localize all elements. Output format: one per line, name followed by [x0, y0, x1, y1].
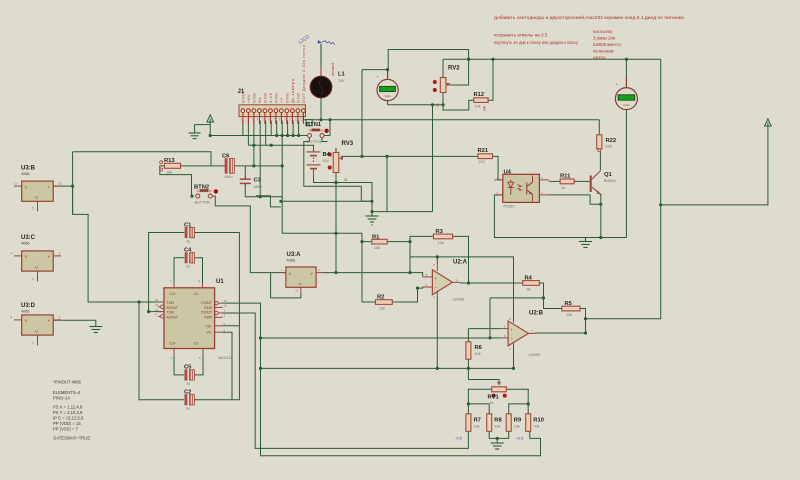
svg-text:R21: R21 — [478, 148, 489, 154]
wire R2 to minus — [392, 287, 422, 303]
svg-text:220: 220 — [479, 160, 485, 164]
power arrow (far right) — [765, 119, 772, 128]
svg-text:R3: R3 — [436, 229, 444, 235]
svg-text:исправить атмелы на 0.5: исправить атмелы на 0.5 — [494, 33, 548, 38]
svg-text:U3:B: U3:B — [21, 165, 36, 171]
svg-text:R9: R9 — [514, 417, 522, 423]
wire R11 to Q1 base — [574, 180, 590, 182]
wire power arrow right branch — [661, 128, 768, 205]
wire R1 left — [362, 241, 372, 243]
svg-text:10k: 10k — [514, 424, 520, 428]
svg-text:*PINOUT 4066: *PINOUT 4066 — [53, 380, 82, 385]
svg-text:LM359: LM359 — [529, 353, 541, 357]
svg-text:R11: R11 — [560, 174, 571, 180]
svg-text:12: 12 — [31, 206, 35, 210]
wire J1 pin8 long down — [282, 121, 362, 234]
svg-text:100u: 100u — [224, 175, 232, 179]
svg-text:PP (VDD) = 14: PP (VDD) = 14 — [53, 421, 81, 426]
svg-text:11: 11 — [14, 182, 17, 186]
wire long vertical x362 upper — [361, 70, 363, 157]
wire node to R5 — [544, 298, 562, 309]
svg-text:R4: R4 — [525, 276, 533, 282]
wire U2:B minus stub — [490, 337, 501, 339]
svg-text:PP (VSS) = 7: PP (VSS) = 7 — [53, 427, 79, 432]
wire RV1 right loop — [506, 389, 528, 404]
op-amp U2:A — [423, 263, 460, 299]
lamp L1 — [310, 44, 332, 98]
svg-text:U3:A: U3:A — [287, 252, 302, 258]
svg-text:R13: R13 — [164, 158, 175, 164]
voltmeter VM1 — [377, 72, 399, 101]
svg-text:U: U — [35, 266, 38, 270]
wire R6 top — [467, 329, 469, 342]
potentiometer RV1 — [492, 382, 507, 398]
power arrow (near J1) — [207, 115, 214, 124]
wire R4 right node — [539, 283, 543, 298]
IC U1 MAX232 — [155, 279, 227, 360]
wire J1 pin3 down — [253, 121, 255, 166]
wire J1 pin10 down — [292, 121, 294, 136]
svg-text:10: 10 — [59, 182, 63, 186]
wire RV2 top leg — [442, 59, 444, 77]
svg-text:B4: B4 — [323, 152, 331, 158]
svg-text:R7: R7 — [474, 417, 481, 423]
wire BTN1 right up — [324, 120, 330, 136]
svg-text:L1: L1 — [338, 72, 346, 78]
svg-text:U4: U4 — [504, 169, 512, 175]
ground (right, Q1 emitter rail) — [579, 238, 592, 248]
wire voltmeter1 bottom row y105 — [388, 101, 444, 105]
svg-text:10V: 10V — [323, 159, 330, 163]
ground (bottom, bridge) — [491, 443, 504, 449]
wire x432 vertical — [432, 105, 434, 212]
svg-text:GND: GND — [262, 92, 267, 103]
wire J1 pin7 down — [276, 121, 278, 136]
svg-text:1u: 1u — [186, 407, 190, 411]
svg-text:R8: R8 — [494, 417, 502, 423]
svg-text:PINS=14: PINS=14 — [53, 396, 71, 401]
wire C3 top — [244, 166, 246, 179]
svg-text:C2: C2 — [184, 390, 191, 396]
svg-text:U2:B: U2:B — [529, 311, 544, 317]
svg-text:BTN2: BTN2 — [194, 185, 209, 191]
svg-text:+: + — [434, 276, 437, 281]
wire R1 right node — [387, 242, 410, 273]
svg-text:4066: 4066 — [287, 259, 295, 263]
wire RV3 wiper row to R21 — [341, 155, 478, 157]
svg-text:C2-: C2- — [194, 342, 199, 346]
wire RV2 bottom jog to R12 left — [443, 93, 474, 111]
wire left vertical x72.6 — [72, 152, 74, 215]
annotation red notes top — [494, 14, 685, 45]
capacitor C2 — [185, 395, 195, 405]
net label L1(1) blue — [298, 34, 335, 46]
svg-text:9k: 9k — [527, 287, 531, 291]
wire R3 right feedback — [453, 236, 469, 283]
svg-text:Dx: Dx — [257, 97, 262, 103]
wire R6 to RV1 wiper — [468, 368, 499, 385]
svg-text:U2:A: U2:A — [453, 260, 468, 266]
svg-text:+0.5: +0.5 — [516, 436, 525, 441]
svg-text:C3: C3 — [254, 178, 262, 184]
svg-text:RV1: RV1 — [488, 395, 500, 401]
optocoupler U4 — [494, 174, 548, 202]
svg-text:10: 10 — [155, 308, 159, 312]
resistor R21 — [478, 154, 493, 159]
svg-text:10k: 10k — [166, 171, 172, 175]
svg-text:GND: GND — [273, 92, 278, 103]
svg-text:BUTTON: BUTTON — [195, 201, 211, 205]
wire R12 right to rail — [488, 59, 493, 100]
wire J1 pin1 down — [242, 121, 244, 136]
wire BTN1 row y135.5 — [210, 135, 307, 137]
button BTN2 — [196, 189, 218, 198]
wire J1 pin9 down — [287, 121, 289, 136]
svg-text:RV2: RV2 — [448, 66, 460, 72]
svg-text:1k: 1k — [561, 186, 565, 190]
wire R13 to C6 row — [181, 165, 283, 167]
svg-text:U1: U1 — [216, 279, 224, 285]
potentiometer RV2 — [433, 78, 450, 108]
capacitor C1 — [185, 227, 195, 237]
wire R21 right to U4 pin1 — [493, 156, 503, 180]
svg-text:10k: 10k — [475, 105, 481, 109]
svg-text:автомоб: автомоб — [331, 63, 335, 76]
svg-text:R12: R12 — [474, 92, 485, 98]
svg-text:ELEMENTS=4: ELEMENTS=4 — [53, 390, 81, 395]
svg-text:OUT Диодов 0.42v голос: OUT Диодов 0.42v голос — [301, 44, 306, 103]
capacitor C6 — [223, 159, 237, 174]
wire R5 right — [580, 309, 586, 334]
svg-text:220: 220 — [606, 145, 612, 149]
wire rail y119.7 — [304, 117, 600, 120]
wire top rail B y59 — [443, 58, 661, 60]
svg-text:R1IN: R1IN — [204, 306, 212, 310]
svg-text:10k: 10k — [475, 352, 481, 356]
svg-text:4066: 4066 — [21, 172, 29, 176]
wire lamp bottom — [320, 98, 322, 120]
battery B4 — [307, 150, 332, 176]
wire U1 T2OUT right — [223, 313, 469, 448]
wire R3 left — [410, 236, 433, 241]
wire J1 pin12 to rail — [302, 119, 304, 122]
wire battery row y145.2 — [248, 145, 313, 150]
svg-text:печатьнам: печатьнам — [593, 49, 614, 54]
wire R6 bottom — [467, 359, 469, 368]
svg-text:R2IN: R2IN — [204, 315, 212, 319]
svg-text:1k: 1k — [490, 401, 494, 405]
wire J1 pin6 down — [270, 121, 272, 136]
svg-text:10k: 10k — [533, 424, 539, 428]
svg-text:C5: C5 — [184, 365, 192, 371]
text block PINOUT (bottom left) — [53, 380, 90, 441]
wire C2 left vertical — [139, 302, 184, 400]
wire T2IN row — [149, 311, 164, 313]
svg-text:U3:D: U3:D — [21, 303, 36, 309]
svg-text:C2+: C2+ — [170, 342, 176, 346]
svg-text:R22: R22 — [606, 138, 617, 144]
svg-text:R2: R2 — [377, 295, 384, 301]
svg-text:14: 14 — [224, 299, 228, 303]
svg-text:R1OUT: R1OUT — [167, 306, 179, 310]
wire voltmeter1 top link — [362, 70, 388, 80]
svg-text:11: 11 — [155, 298, 158, 302]
analog switch U3:A — [280, 267, 322, 294]
svg-text:680p: 680p — [254, 185, 262, 189]
svg-text:R5: R5 — [565, 301, 573, 307]
wire U3:A Y to U2:A plus — [322, 273, 423, 277]
svg-text:насосилог: насосилог — [593, 29, 613, 34]
wire voltmeter2 bottom long — [586, 110, 627, 238]
wire voltmeter2 top — [625, 59, 627, 87]
resistor R9 (vertical) — [506, 414, 511, 432]
wire x660 vertical — [586, 59, 661, 319]
wire x387 drop — [386, 156, 388, 211]
svg-text:Q1: Q1 — [604, 172, 613, 178]
svg-text:+7: +7 — [279, 97, 284, 103]
wire U3:A pin13 loop — [271, 273, 301, 298]
wire C1 left vertical — [149, 233, 185, 312]
svg-text:1k: 1k — [436, 103, 440, 107]
svg-text:R10: R10 — [533, 417, 544, 423]
svg-text:13: 13 — [295, 289, 299, 293]
voltmeter VM2 — [615, 78, 637, 110]
svg-text:4066: 4066 — [21, 242, 29, 246]
svg-text:корпус: корпус — [593, 55, 606, 60]
wire RV1 left loop — [468, 389, 491, 404]
svg-text:C4: C4 — [184, 248, 192, 254]
svg-text:BTN1: BTN1 — [306, 122, 322, 128]
wire bridge top left — [468, 404, 489, 414]
resistor R8 (vertical) — [487, 414, 492, 432]
wire U2:B out — [535, 332, 586, 334]
svg-text:Дх камера: Дх камера — [290, 78, 295, 103]
svg-text:GATESWAP=TRUE: GATESWAP=TRUE — [53, 436, 90, 441]
wire gnd1 link — [195, 125, 211, 133]
wire node to feedback left — [490, 297, 544, 299]
svg-text:1u: 1u — [186, 265, 190, 269]
wire C5 loop — [174, 355, 203, 375]
svg-text:C1: C1 — [184, 222, 192, 228]
svg-text:подтянуть 4А дир к плюсу или д: подтянуть 4А дир к плюсу или диодом к пл… — [494, 40, 579, 45]
svg-text:GND: GND — [240, 92, 245, 103]
svg-text:C1+: C1+ — [170, 292, 176, 296]
wire U3:B Y to U1 T1IN — [53, 186, 164, 302]
resistor R1 — [372, 239, 387, 244]
wire R13 left to BTN2 — [160, 166, 192, 196]
resistor R4 — [523, 281, 540, 286]
wire J1 pin2 down — [247, 121, 249, 146]
J1 pin name labels (red vertical) — [240, 44, 306, 103]
svg-text:T2IN: T2IN — [167, 311, 175, 315]
wire U1 VS- to C2 — [223, 332, 232, 400]
resistor R5 — [562, 306, 580, 311]
svg-text:24V: 24V — [338, 79, 345, 83]
wire U2:A pin8 — [436, 257, 438, 264]
svg-text:BUTTON: BUTTON — [307, 140, 323, 144]
capacitor C3 — [240, 176, 251, 187]
svg-text:1u: 1u — [186, 240, 190, 244]
wire J1 pin11 down — [298, 121, 300, 136]
wire B4 bottom to ground2 — [314, 176, 373, 212]
wire C2 right vertical — [195, 326, 240, 400]
svg-text:+6V: +6V — [246, 94, 251, 103]
ground (near J1) — [189, 133, 201, 139]
svg-text:RV3: RV3 — [342, 141, 354, 147]
resistor R3 — [433, 234, 452, 239]
svg-text:Volts: Volts — [623, 103, 630, 107]
wire J1 pin4 down — [259, 121, 261, 197]
svg-text:BU806: BU806 — [604, 179, 616, 183]
svg-text:R1: R1 — [372, 234, 380, 240]
ground (left, U3:D) — [89, 327, 102, 333]
svg-text:VS-: VS- — [206, 331, 212, 335]
wire U1 T1OUT right — [223, 303, 541, 456]
analog switch U3:C — [11, 251, 62, 281]
svg-text:0-16: 0-16 — [268, 92, 273, 103]
svg-text:10k: 10k — [483, 105, 487, 111]
wire U2:B pin4 — [513, 345, 515, 368]
svg-text:5k: 5k — [344, 178, 348, 182]
svg-text:10k: 10k — [474, 424, 480, 428]
svg-text:PS X = 1,11,4,8: PS X = 1,11,4,8 — [53, 405, 83, 410]
wire C1 right vertical — [195, 233, 240, 326]
transistor Q1 — [591, 171, 601, 195]
svg-text:VS+: VS+ — [205, 324, 212, 328]
wire U2:A pin4 down — [436, 295, 438, 368]
wire Q1 collector to R22 — [599, 152, 601, 171]
wire U4 pin4 to R11 — [549, 180, 560, 182]
wire supply rail y257 — [410, 257, 514, 322]
capacitor C5 — [185, 370, 195, 380]
svg-text:10k: 10k — [374, 246, 380, 250]
wire RV3 bottom long vertical — [335, 173, 337, 273]
svg-text:-0.5: -0.5 — [455, 436, 463, 441]
wire C3 bottom row y196.8 — [245, 184, 282, 197]
ground (center, under RV3) — [366, 212, 379, 225]
resistor R2 — [375, 300, 392, 305]
wire rail y338 — [261, 298, 491, 338]
svg-text:4066: 4066 — [21, 310, 29, 314]
wire BTN2 right to U3:A X — [213, 196, 286, 273]
svg-text:T1OUT: T1OUT — [201, 301, 212, 305]
svg-text:10k: 10k — [494, 424, 500, 428]
svg-text:C6: C6 — [222, 154, 230, 160]
wire C4 loop — [174, 258, 203, 283]
wire U2:A out to R4 — [460, 282, 523, 284]
potentiometer RV3 — [333, 148, 348, 182]
resistor R22 (vertical) — [597, 135, 602, 152]
op-amp U2:B — [501, 317, 535, 351]
svg-text:C1-: C1- — [194, 292, 199, 296]
wire U2:B plus row — [468, 328, 501, 330]
wire long vertical x362 lower — [362, 233, 375, 302]
connector J1 — [239, 105, 312, 126]
wire R8 R9 bottoms to ground4 — [489, 431, 509, 443]
resistor R12 — [474, 98, 488, 111]
svg-text:12: 12 — [155, 303, 159, 307]
wire U3:D Y to ground3 — [53, 320, 96, 326]
svg-text:−: − — [435, 286, 438, 291]
svg-text:PC817: PC817 — [504, 205, 516, 209]
wire bridge top right — [509, 404, 529, 414]
wire U4 pin3 to emitter — [549, 195, 601, 204]
svg-text:U: U — [35, 196, 38, 200]
svg-text:MAX232: MAX232 — [218, 356, 233, 360]
capacitor C4 — [185, 253, 195, 263]
svg-text:GND: GND — [251, 92, 256, 103]
resistor R13 — [160, 161, 181, 171]
svg-text:U: U — [299, 282, 302, 286]
svg-text:13: 13 — [224, 304, 228, 308]
wire rail A voltmeter1 to RV2 wiper — [388, 50, 468, 86]
wire rail y368.4 — [261, 367, 514, 369]
svg-text:+: + — [510, 327, 513, 332]
svg-text:10k: 10k — [438, 241, 444, 245]
svg-text:IP C = 13,12,5,6: IP C = 13,12,5,6 — [53, 416, 84, 421]
analog switch U3:B — [14, 181, 62, 211]
svg-text:Volts: Volts — [384, 94, 391, 98]
wire J1 pin5 down — [265, 121, 267, 146]
svg-text:−: − — [510, 337, 513, 342]
wire row y201.3 — [281, 200, 372, 202]
wire R22 top — [598, 120, 600, 135]
resistor R11 — [560, 179, 574, 184]
wire U4 pin2 down to ground rail — [494, 195, 585, 238]
resistor R10 (vertical) — [526, 414, 531, 432]
svg-text:добавить светодиоды и двухстор: добавить светодиоды и двухсторонний,max2… — [494, 14, 685, 20]
svg-text:GND: GND — [284, 92, 289, 103]
svg-text:bar500 вместо: bar500 вместо — [593, 42, 622, 47]
wire rail y151.7 left — [73, 152, 211, 166]
svg-text:10k: 10k — [379, 306, 385, 310]
svg-text:U: U — [35, 330, 38, 334]
svg-text:U3:C: U3:C — [21, 235, 36, 241]
button BTN1 — [308, 129, 329, 138]
svg-text:LM358: LM358 — [453, 298, 465, 302]
svg-text:10k: 10k — [566, 313, 572, 317]
resistor R6 (vertical) — [466, 342, 471, 359]
svg-text:R2OUT: R2OUT — [167, 315, 179, 319]
svg-text:R6: R6 — [475, 345, 483, 351]
analog switch U3:D — [11, 315, 62, 345]
resistor R7 (vertical) — [466, 414, 471, 432]
wire U1 VS+ to C1C2 — [223, 325, 240, 327]
svg-text:1u: 1u — [186, 382, 190, 386]
wire arrow stem — [209, 124, 211, 136]
svg-text:T1IN: T1IN — [167, 301, 175, 305]
wire Q1 emitter down — [600, 194, 602, 238]
svg-text:3 рамы 24в: 3 рамы 24в — [593, 36, 616, 41]
annotation red notes right column — [593, 29, 622, 60]
wire BTN1 lower loop — [304, 138, 372, 202]
wire y211.6 row — [372, 211, 433, 213]
svg-text:T2OUT: T2OUT — [201, 311, 212, 315]
svg-text:PS Y = 2,10,3,9: PS Y = 2,10,3,9 — [53, 410, 83, 415]
wire zigzag near C3 — [256, 196, 281, 207]
svg-text:GND: GND — [295, 92, 300, 103]
